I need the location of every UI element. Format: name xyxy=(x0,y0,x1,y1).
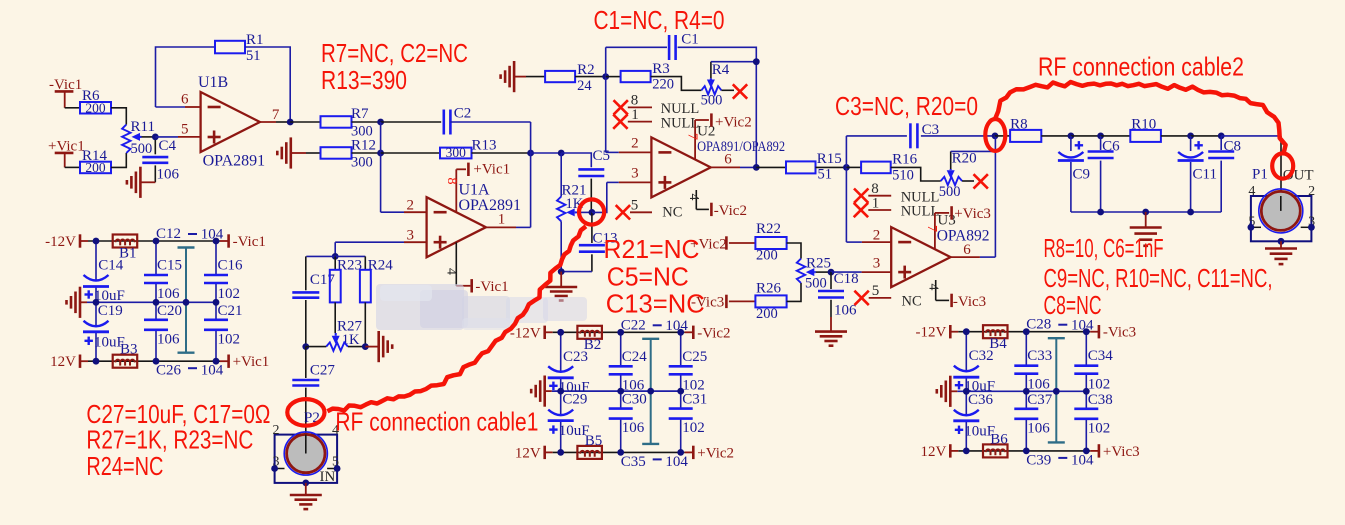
ground (node A) xyxy=(545,272,577,301)
ferrite bead B2 xyxy=(577,326,602,339)
svg-text:106: 106 xyxy=(157,286,180,302)
svg-text:RF connection cable1: RF connection cable1 xyxy=(335,407,538,437)
node C4 tap xyxy=(152,134,159,141)
capacitor C4 xyxy=(142,138,179,183)
pin 4 stub U1A xyxy=(456,242,470,285)
svg-text:-12V: -12V xyxy=(915,325,946,341)
svg-text:104: 104 xyxy=(201,227,224,243)
capacitor C38 xyxy=(1074,392,1113,437)
power -12V xyxy=(915,325,950,341)
wire xyxy=(245,47,290,122)
svg-text:C17: C17 xyxy=(310,272,336,288)
ground (mid rail) xyxy=(937,376,958,407)
power -12V xyxy=(510,325,545,341)
node xyxy=(1023,388,1030,395)
svg-text:C22: C22 xyxy=(621,317,646,333)
potentiometer R4 xyxy=(701,62,730,109)
capacitor C11 (polarized) xyxy=(1178,136,1217,212)
svg-text:12V: 12V xyxy=(50,354,76,370)
wire pin3 xyxy=(335,241,404,243)
wire xyxy=(816,271,831,273)
pin 8 power stub U1A xyxy=(456,169,466,212)
node A xyxy=(589,209,596,216)
wire xyxy=(1071,135,1101,137)
resistor R7 xyxy=(321,106,373,140)
wire xyxy=(352,121,381,123)
svg-text:C2: C2 xyxy=(454,106,472,122)
svg-text:500: 500 xyxy=(939,184,961,200)
capacitor C20 xyxy=(144,303,182,348)
power +Vic3 (U3) xyxy=(952,206,991,222)
wire xyxy=(526,76,545,78)
node C3/R8 (circled) xyxy=(992,133,999,140)
svg-text:106: 106 xyxy=(1027,420,1050,436)
svg-text:200: 200 xyxy=(85,100,106,115)
svg-text:NULL: NULL xyxy=(661,115,700,131)
svg-text:+Vic2: +Vic2 xyxy=(715,115,752,131)
node xyxy=(557,449,564,456)
power +Vic1 (input bottom) xyxy=(48,139,85,168)
capacitor C29 (10uF) xyxy=(548,392,590,440)
wire pin6 U2 xyxy=(712,166,741,168)
capacitor C32 (10uF) xyxy=(953,348,995,395)
red circle node C3/R8 xyxy=(985,119,1005,151)
wire xyxy=(155,136,178,138)
svg-text:R25: R25 xyxy=(806,256,831,272)
net tie line xyxy=(642,339,659,444)
wire xyxy=(606,76,621,78)
ferrite bead B3 xyxy=(113,355,138,368)
capacitor C39 xyxy=(1026,452,1094,468)
svg-text:102: 102 xyxy=(218,286,241,302)
ferrite bead B5 xyxy=(577,446,602,459)
power -Vic1 (input top) xyxy=(49,77,82,108)
svg-text:OPA891/OPA892: OPA891/OPA892 xyxy=(697,139,785,155)
wire xyxy=(334,242,336,256)
capacitor C36 (10uF) xyxy=(953,392,995,440)
svg-text:106: 106 xyxy=(157,167,180,183)
capacitor C3 xyxy=(910,122,939,148)
wire R20 wiper xyxy=(951,150,996,152)
node R25/C18 xyxy=(828,269,835,276)
svg-text:C20: C20 xyxy=(157,303,182,319)
wire pin2 xyxy=(381,211,404,213)
node xyxy=(93,299,100,306)
wire pin3 U2 from node A xyxy=(592,182,607,212)
pin 7 stub U3 xyxy=(935,213,949,249)
capacitor C2 xyxy=(444,106,472,135)
node xyxy=(677,449,684,456)
svg-text:8: 8 xyxy=(444,178,459,185)
svg-text:C29: C29 xyxy=(562,392,587,408)
svg-text:500: 500 xyxy=(805,276,827,292)
node C9 xyxy=(1068,133,1075,140)
svg-text:1K: 1K xyxy=(342,332,360,348)
svg-text:-Vic1: -Vic1 xyxy=(475,279,508,295)
ground (C18) xyxy=(815,317,847,346)
node C8 xyxy=(1218,133,1225,140)
svg-text:R8=10, C6=1nF: R8=10, C6=1nF xyxy=(1044,233,1164,263)
svg-text:C34: C34 xyxy=(1088,348,1114,364)
wire xyxy=(577,211,592,213)
pin 8 NULL U3 xyxy=(854,181,939,206)
RF connection cable1 curve xyxy=(327,226,586,411)
wire xyxy=(111,108,126,125)
capacitor C33 xyxy=(1014,348,1052,393)
net tie line xyxy=(1048,338,1065,442)
red circle OUT xyxy=(1272,153,1293,178)
svg-text:R26: R26 xyxy=(756,281,782,297)
svg-text:C11: C11 xyxy=(1193,166,1217,182)
power +Vic2 xyxy=(693,445,734,461)
svg-text:-Vic3: -Vic3 xyxy=(953,294,986,310)
wire pin6 xyxy=(156,106,186,108)
svg-text:10uF: 10uF xyxy=(559,423,590,439)
svg-text:104: 104 xyxy=(665,454,688,470)
capacitor C15 xyxy=(144,258,182,303)
capacitor C37 xyxy=(1014,392,1053,437)
resistor R12 xyxy=(321,138,377,171)
svg-text:R4: R4 xyxy=(712,62,730,78)
node xyxy=(677,388,684,395)
resistor R3 xyxy=(621,61,674,93)
capacitor C9 (polarized) xyxy=(1058,136,1090,212)
svg-text:C37: C37 xyxy=(1027,392,1053,408)
svg-text:102: 102 xyxy=(1088,377,1111,393)
wire xyxy=(651,77,702,91)
svg-text:102: 102 xyxy=(682,420,705,436)
wire xyxy=(450,121,530,123)
pin 5 NC U3 xyxy=(854,283,921,310)
svg-text:C3=NC, R20=0: C3=NC, R20=0 xyxy=(835,91,978,121)
wire vertical to pin6 U3 xyxy=(994,136,996,257)
svg-text:10uF: 10uF xyxy=(94,334,125,350)
op-amp U3 xyxy=(891,212,989,287)
svg-text:7: 7 xyxy=(685,133,700,140)
svg-text:24: 24 xyxy=(577,78,592,94)
wire feedback loop xyxy=(156,47,216,107)
pin 1 NULL U2 xyxy=(613,107,699,131)
power 12V xyxy=(50,354,80,370)
power -12V xyxy=(45,234,80,250)
potentiometer R11 xyxy=(122,119,155,157)
svg-text:-Vic1: -Vic1 xyxy=(233,234,266,250)
wire xyxy=(561,153,591,167)
svg-text:C5: C5 xyxy=(593,148,611,164)
svg-text:R11: R11 xyxy=(131,119,155,135)
node gnd xyxy=(558,268,565,275)
svg-text:106: 106 xyxy=(1027,377,1050,393)
wire xyxy=(575,76,606,78)
svg-text:3: 3 xyxy=(407,228,415,244)
svg-text:-12V: -12V xyxy=(45,234,76,250)
wire xyxy=(787,283,801,301)
svg-text:7: 7 xyxy=(924,225,939,232)
resistor R6 xyxy=(80,88,111,115)
svg-text:+Vic1: +Vic1 xyxy=(473,162,510,178)
svg-text:C38: C38 xyxy=(1088,392,1113,408)
op-amp U2 xyxy=(651,124,785,198)
power -Vic2 (U2) xyxy=(711,203,747,219)
node R21 top xyxy=(558,150,565,157)
svg-text:NC: NC xyxy=(902,294,922,310)
resistor R24 xyxy=(360,256,393,346)
svg-text:510: 510 xyxy=(892,168,914,184)
capacitor C1 xyxy=(669,32,699,61)
node gnd xyxy=(1142,209,1149,216)
wire xyxy=(561,271,592,273)
node xyxy=(963,388,970,395)
wire xyxy=(1041,135,1071,137)
capacitor C21 xyxy=(204,303,243,348)
node xyxy=(963,328,970,335)
svg-text:200: 200 xyxy=(756,306,778,322)
svg-text:R20: R20 xyxy=(952,151,977,167)
ground (R12 input) xyxy=(277,137,306,168)
svg-text:3: 3 xyxy=(631,166,639,182)
pin 4 stub U3 xyxy=(936,280,949,300)
capacitor C28 xyxy=(1026,317,1094,334)
svg-text:1: 1 xyxy=(498,212,506,228)
potentiometer R21 xyxy=(557,153,587,272)
node xyxy=(153,299,160,306)
node xyxy=(93,358,100,365)
power -Vic2 xyxy=(693,325,730,341)
capacitor C13 xyxy=(579,212,618,271)
node xyxy=(213,299,220,306)
svg-text:-Vic2: -Vic2 xyxy=(697,325,730,341)
wire xyxy=(891,167,941,181)
svg-text:51: 51 xyxy=(818,167,833,183)
svg-text:104: 104 xyxy=(201,363,224,379)
svg-text:NC: NC xyxy=(662,205,682,221)
svg-text:5: 5 xyxy=(631,198,639,214)
svg-text:1: 1 xyxy=(872,195,880,211)
wire xyxy=(1191,135,1222,137)
node xyxy=(1097,209,1104,216)
svg-text:200: 200 xyxy=(85,160,106,175)
resistor R15 xyxy=(786,151,842,183)
node xyxy=(647,388,654,395)
node xyxy=(557,388,564,395)
wire xyxy=(756,166,786,168)
svg-text:220: 220 xyxy=(652,77,674,93)
ground (P1) xyxy=(1265,241,1297,264)
svg-text:2: 2 xyxy=(273,423,280,438)
svg-text:IN: IN xyxy=(320,469,336,485)
resistor R16 xyxy=(861,151,918,183)
wire to P1 xyxy=(1221,135,1281,137)
ground (output) xyxy=(1130,212,1162,246)
svg-text:300: 300 xyxy=(351,155,373,171)
wire xyxy=(1161,135,1191,137)
wire xyxy=(721,89,734,91)
svg-text:R13: R13 xyxy=(472,138,497,154)
connector P2 xyxy=(271,410,340,487)
wire C3 row xyxy=(846,135,907,137)
svg-text:2: 2 xyxy=(873,228,881,244)
svg-text:P1: P1 xyxy=(1252,167,1268,183)
svg-text:2: 2 xyxy=(631,136,639,152)
svg-text:C5=NC: C5=NC xyxy=(607,262,689,292)
power +Vic3 xyxy=(1099,444,1140,460)
svg-text:2: 2 xyxy=(1308,184,1315,199)
node R4/C1 xyxy=(753,58,760,65)
resistor R2 xyxy=(545,62,595,94)
resistor R14 xyxy=(80,148,111,175)
svg-text:4: 4 xyxy=(686,194,701,201)
capacitor C14 (10uF) xyxy=(83,258,125,305)
node xyxy=(1023,328,1030,335)
svg-text:C30: C30 xyxy=(622,392,647,408)
svg-text:3: 3 xyxy=(873,256,881,272)
svg-text:U1B: U1B xyxy=(198,74,228,91)
svg-text:OPA2891: OPA2891 xyxy=(203,153,266,170)
svg-text:C13=NC: C13=NC xyxy=(606,289,705,319)
svg-text:R16: R16 xyxy=(892,151,918,167)
node R2/R3 xyxy=(602,73,609,80)
wire xyxy=(678,47,757,167)
svg-text:12V: 12V xyxy=(515,445,541,461)
red circle node A xyxy=(579,199,604,224)
power +Vic2 (U2) xyxy=(711,113,751,130)
svg-text:5: 5 xyxy=(872,283,880,299)
capacitor C23 (10uF) xyxy=(548,349,590,396)
pin 5 NC U2 xyxy=(616,198,683,221)
resistor R10 xyxy=(1130,117,1161,142)
node xyxy=(617,388,624,395)
capacitor C19 (10uF) xyxy=(83,303,125,351)
wire xyxy=(531,152,562,154)
capacitor C18 xyxy=(818,271,859,319)
node xyxy=(1187,209,1194,216)
wire pin2 U2 xyxy=(606,151,619,153)
svg-text:C23: C23 xyxy=(563,349,588,365)
wire xyxy=(111,153,126,167)
svg-text:C8=NC: C8=NC xyxy=(1044,290,1102,320)
red ellipse P2 xyxy=(287,399,324,426)
wire xyxy=(921,135,995,137)
svg-text:6: 6 xyxy=(181,92,189,108)
power 12V xyxy=(920,444,950,460)
svg-text:104: 104 xyxy=(1071,452,1094,468)
pin 7 stub U2 xyxy=(695,120,709,159)
svg-text:C26: C26 xyxy=(156,363,182,379)
ground (R27 rail) xyxy=(377,331,380,362)
power -Vic3 xyxy=(1099,325,1136,341)
svg-text:6: 6 xyxy=(724,152,732,168)
wire pin7 xyxy=(260,121,276,123)
node xyxy=(1053,388,1060,395)
wire xyxy=(472,152,531,154)
capacitor C16 xyxy=(204,258,243,303)
resistor R22 xyxy=(755,221,786,264)
pin 4 stub U2 xyxy=(696,190,709,209)
svg-text:C9: C9 xyxy=(1073,166,1091,182)
svg-text:R27=1K, R23=NC: R27=1K, R23=NC xyxy=(86,425,253,455)
svg-text:7: 7 xyxy=(272,107,280,123)
svg-text:104: 104 xyxy=(665,318,688,334)
svg-text:1: 1 xyxy=(631,107,639,123)
ground (mid rail) xyxy=(67,287,88,318)
capacitor C22 xyxy=(621,317,689,334)
svg-text:4: 4 xyxy=(926,284,941,291)
svg-text:300: 300 xyxy=(446,145,467,160)
wire pin2 U3 xyxy=(846,241,862,243)
capacitor C12 xyxy=(156,226,224,243)
svg-text:C27: C27 xyxy=(310,363,336,379)
node xyxy=(213,238,220,245)
no-connect X (R4) xyxy=(733,84,747,98)
svg-text:R22: R22 xyxy=(756,221,781,237)
svg-text:R3: R3 xyxy=(652,61,670,77)
capacitor C30 xyxy=(609,392,647,437)
power -Vic1 (U1A pin4) xyxy=(472,279,509,295)
svg-text:102: 102 xyxy=(218,331,241,347)
ferrite bead B1 xyxy=(113,235,138,248)
svg-text:C4: C4 xyxy=(159,138,177,154)
svg-text:C16: C16 xyxy=(218,258,244,274)
svg-text:U3: U3 xyxy=(937,212,955,228)
svg-text:500: 500 xyxy=(131,141,153,157)
svg-text:5: 5 xyxy=(181,122,189,138)
resistor R26 xyxy=(755,281,786,323)
wire pin3 U2 xyxy=(607,181,619,183)
svg-text:C6: C6 xyxy=(1102,138,1120,154)
svg-text:+Vic2: +Vic2 xyxy=(697,445,734,461)
watermark blur patch xyxy=(376,284,587,330)
wire vertical to pin2 xyxy=(380,122,382,212)
svg-text:R1: R1 xyxy=(246,32,264,48)
svg-text:C8: C8 xyxy=(1224,138,1242,154)
wire xyxy=(816,166,847,168)
wire xyxy=(995,135,1010,137)
capacitor C8 xyxy=(1208,136,1241,212)
svg-text:R13=390: R13=390 xyxy=(321,65,407,95)
resistor R8 xyxy=(1010,117,1041,142)
svg-text:R12: R12 xyxy=(351,138,376,154)
power +Vic1 xyxy=(229,354,270,370)
node xyxy=(213,358,220,365)
wire xyxy=(381,121,442,123)
node xyxy=(1083,388,1090,395)
wire xyxy=(290,121,320,123)
ground (R2) xyxy=(501,61,526,92)
power +Vic1 (U1A pin8) xyxy=(468,162,510,178)
wire xyxy=(352,152,381,154)
node R12/R13 xyxy=(377,150,384,157)
svg-text:C12: C12 xyxy=(156,226,181,242)
svg-text:6: 6 xyxy=(963,242,971,258)
node R7/C2 xyxy=(377,119,384,126)
svg-text:C1=NC, R4=0: C1=NC, R4=0 xyxy=(594,5,725,35)
capacitor C5 xyxy=(578,148,610,212)
node xyxy=(617,449,624,456)
op-amp U1B xyxy=(198,74,265,170)
svg-text:C21: C21 xyxy=(218,303,243,319)
svg-text:C31: C31 xyxy=(682,392,707,408)
wire C1 top xyxy=(606,46,667,48)
svg-text:R2: R2 xyxy=(577,62,595,78)
wire pin6 U3 xyxy=(951,256,980,258)
svg-text:R7: R7 xyxy=(351,106,369,122)
svg-text:C32: C32 xyxy=(969,348,994,364)
wire xyxy=(1101,135,1131,137)
node C17/C27 xyxy=(302,343,309,350)
node R13 output xyxy=(527,150,534,157)
node C11 xyxy=(1187,133,1194,140)
wire xyxy=(306,255,365,257)
